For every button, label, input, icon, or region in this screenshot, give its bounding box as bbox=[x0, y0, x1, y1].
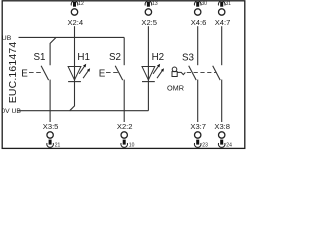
svg-text:S2: S2 bbox=[109, 52, 121, 63]
svg-text:24: 24 bbox=[226, 142, 232, 148]
wire UB rail bbox=[19, 36, 125, 38]
actuator OMR (mushroom head, mechanical link) bbox=[167, 67, 185, 93]
plug terminal X4:6 pin 30 bbox=[191, 1, 207, 27]
plug terminal X2:5 pin 13 bbox=[141, 1, 157, 27]
lamp H2 bbox=[142, 52, 164, 82]
wire S2 to X2:2 (crosses 0V rail) bbox=[123, 80, 125, 122]
svg-text:H1: H1 bbox=[77, 52, 90, 63]
svg-text:12: 12 bbox=[78, 1, 84, 7]
wire S1 to X3:5 bbox=[49, 80, 51, 122]
wire UB rail corner down to S2 bbox=[123, 37, 125, 65]
plug terminal X3:8 pin 24 bbox=[214, 122, 232, 148]
plug terminal X4:7 pin 31 bbox=[215, 1, 231, 27]
svg-text:13: 13 bbox=[152, 1, 158, 7]
svg-text:X3:5: X3:5 bbox=[43, 122, 59, 131]
wire X4:7 to S3 contact 2 bbox=[221, 26, 223, 65]
plug terminal X3:5 pin 21 bbox=[43, 122, 61, 148]
wire X2:5 to H2 bbox=[147, 26, 149, 66]
plug terminal X3:7 pin 23 bbox=[190, 122, 208, 148]
wire H1 to 0V rail (45 deg jog) bbox=[70, 82, 75, 111]
svg-text:E: E bbox=[99, 69, 106, 80]
svg-text:30: 30 bbox=[201, 1, 207, 7]
svg-text:S1: S1 bbox=[34, 52, 46, 63]
svg-text:EUC.161474: EUC.161474 bbox=[7, 42, 19, 104]
lamp H1 bbox=[68, 52, 90, 82]
svg-text:H2: H2 bbox=[152, 52, 165, 63]
switch S3 (2-pole) bbox=[182, 53, 220, 81]
svg-text:23: 23 bbox=[202, 142, 208, 148]
switch S2 bbox=[99, 52, 123, 80]
svg-text:X2:2: X2:2 bbox=[117, 122, 133, 131]
svg-text:S3: S3 bbox=[182, 53, 195, 64]
plug terminal X2:2 pin 10 bbox=[117, 122, 135, 148]
svg-text:10: 10 bbox=[129, 142, 135, 148]
svg-text:X4:7: X4:7 bbox=[215, 18, 231, 27]
svg-text:UB: UB bbox=[2, 35, 12, 42]
svg-text:X2:5: X2:5 bbox=[141, 18, 157, 27]
svg-text:X3:8: X3:8 bbox=[214, 122, 230, 131]
wire X4:6 to S3 contact 1 bbox=[197, 26, 199, 65]
svg-text:E: E bbox=[21, 69, 28, 80]
svg-text:OMR: OMR bbox=[167, 84, 184, 93]
wire H2 down, corner into 0V rail end bbox=[147, 82, 149, 111]
svg-text:X2:4: X2:4 bbox=[67, 18, 83, 27]
plug terminal X2:4 pin 12 bbox=[67, 1, 83, 27]
svg-text:31: 31 bbox=[225, 1, 231, 7]
wire UB rail to S1 (45 deg jog) bbox=[50, 37, 56, 65]
svg-text:X3:7: X3:7 bbox=[190, 122, 206, 131]
svg-text:X4:6: X4:6 bbox=[191, 18, 207, 27]
svg-text:0V UB: 0V UB bbox=[1, 108, 21, 115]
wire 0V rail bbox=[18, 110, 148, 112]
svg-text:21: 21 bbox=[55, 142, 61, 148]
switch S1 bbox=[21, 52, 48, 80]
wire S3 contact 2 to X3:8 bbox=[221, 80, 223, 122]
wire S3 contact 1 to X3:7 bbox=[197, 80, 199, 122]
wire X2:4 to H1 bbox=[74, 26, 76, 66]
